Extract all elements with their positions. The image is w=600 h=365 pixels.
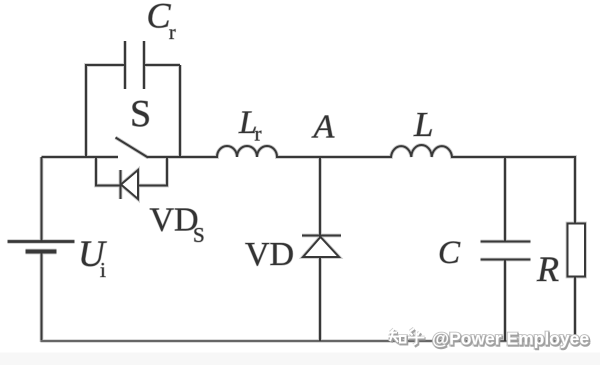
svg-text:R: R <box>536 249 559 289</box>
svg-text:C: C <box>438 235 461 271</box>
svg-text:VD: VD <box>245 236 294 273</box>
svg-text:A: A <box>312 109 335 146</box>
svg-text:VD: VD <box>150 202 199 239</box>
svg-text:r: r <box>169 22 176 44</box>
svg-text:S: S <box>130 93 151 135</box>
svg-text:C: C <box>147 0 172 36</box>
svg-text:r: r <box>255 122 262 146</box>
svg-text:@Power Employee: @Power Employee <box>432 329 589 349</box>
svg-text:i: i <box>100 258 106 282</box>
svg-text:L: L <box>413 105 433 144</box>
svg-text:S: S <box>193 223 205 247</box>
